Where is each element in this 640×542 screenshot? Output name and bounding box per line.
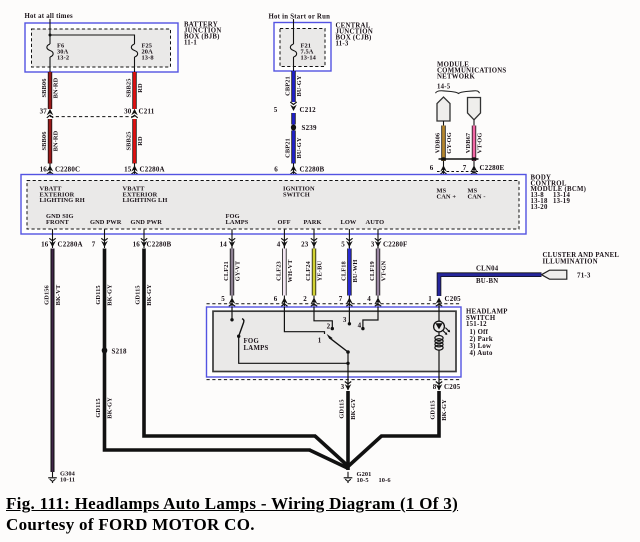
svg-text:BK-GY: BK-GY (350, 398, 357, 420)
svg-text:VT-OG: VT-OG (477, 133, 484, 154)
svg-text:C2280B: C2280B (147, 240, 172, 248)
node MS CAN - (468, 187, 486, 200)
fuse F21 7.5A (290, 44, 296, 57)
pin 7 gnd pwr (104, 229, 106, 248)
node MS CAN + (437, 187, 457, 200)
wire CLF19 VT-GN (369, 245, 388, 307)
svg-text:GND PWR: GND PWR (90, 219, 122, 226)
svg-text:30: 30 (124, 108, 132, 116)
svg-text:YE-BU: YE-BU (317, 261, 324, 282)
node contact 2 (331, 327, 334, 330)
svg-text:BK-GY: BK-GY (107, 284, 114, 306)
wire hot feed into BJB (49, 19, 51, 44)
svg-text:BN-RD: BN-RD (53, 77, 60, 98)
switch pin 3 out (345, 382, 352, 391)
svg-text:SWITCH: SWITCH (283, 191, 310, 198)
wire SBB06 BN-RD lower segment (41, 119, 60, 164)
wire fog lamp output (239, 336, 348, 363)
svg-text:13-20: 13-20 (531, 204, 548, 211)
svg-text:13-8: 13-8 (142, 55, 154, 62)
svg-text:2: 2 (303, 295, 307, 303)
svg-text:1: 1 (428, 295, 432, 303)
ground G201 (344, 472, 353, 483)
wire GD115 BK-GY from switch pin 8 (348, 391, 448, 467)
svg-text:WH-VT: WH-VT (287, 259, 294, 283)
node VBATT EXTERIOR LIGHTING RH (40, 185, 85, 204)
wire GD156 BK-VT (44, 249, 63, 473)
wire GD115 BK-GY from switch pin 3 (339, 391, 358, 470)
svg-text:GD115: GD115 (135, 285, 142, 304)
svg-text:3) Low: 3) Low (470, 343, 492, 350)
svg-text:4: 4 (277, 240, 281, 248)
svg-text:SBB25: SBB25 (126, 79, 133, 98)
wire hot feed into CJB (293, 19, 295, 44)
svg-text:6: 6 (430, 164, 434, 172)
wire VDB67 VT-OG (465, 120, 484, 181)
svg-text:11-3: 11-3 (336, 41, 349, 48)
svg-text:LIGHTING LH: LIGHTING LH (123, 197, 168, 204)
brace over network connectors (436, 91, 480, 94)
wire GD115 BK-GY from pin 16 C2280B (135, 249, 349, 467)
splice S218 (102, 347, 108, 353)
wire LED to resistor (438, 332, 440, 336)
svg-text:3: 3 (343, 316, 347, 324)
svg-text:C205: C205 (444, 383, 461, 391)
wire CBP21 BU-GY lower segment (285, 131, 304, 164)
svg-text:SBB25: SBB25 (126, 132, 133, 151)
svg-text:5: 5 (221, 295, 225, 303)
svg-text:1: 1 (318, 336, 322, 344)
svg-text:16: 16 (40, 166, 48, 174)
svg-text:6: 6 (274, 166, 278, 174)
connector VDB67 terminal (468, 98, 481, 120)
wire CLF21 GY-VT (223, 245, 242, 307)
svg-text:RD: RD (137, 83, 144, 93)
lamp LED indicator (434, 321, 451, 335)
wire from pin 4 to contact 4 (363, 307, 378, 327)
connector C211 dashed line (50, 116, 135, 118)
svg-text:C2280B: C2280B (300, 166, 325, 174)
wire CLF18 BU-WH (340, 245, 359, 307)
svg-text:CLN04: CLN04 (476, 266, 499, 273)
connector C205 dashed line top (207, 303, 462, 305)
switch fog lamps lever (239, 319, 244, 337)
wire resistor down (438, 350, 440, 390)
pin 5 low (348, 229, 350, 248)
svg-text:LOW: LOW (341, 219, 357, 226)
wire fog feed inside switch (231, 307, 233, 320)
fuse F25 20A (131, 44, 137, 57)
svg-text:GD115: GD115 (430, 400, 437, 419)
headlamp switch box (207, 307, 462, 377)
svg-text:VT-GN: VT-GN (381, 260, 388, 281)
svg-text:14: 14 (220, 240, 228, 248)
svg-text:OFF: OFF (278, 219, 291, 226)
node VBATT EXTERIOR LIGHTING LH (123, 185, 168, 204)
svg-text:BK-VT: BK-VT (55, 284, 62, 305)
svg-text:NETWORK: NETWORK (437, 74, 475, 81)
svg-text:4: 4 (358, 321, 362, 329)
wire illumination feed inside switch (438, 301, 440, 322)
svg-text:SBB06: SBB06 (41, 78, 48, 98)
wire from pin 6 to contact 1 (284, 307, 324, 334)
svg-text:16: 16 (41, 240, 49, 248)
wire from pin 2 to contact 2 (314, 307, 332, 327)
fuse F6 30A (47, 44, 53, 57)
wire bus inside BJB (50, 35, 135, 44)
switch pin 7 (346, 297, 353, 306)
pin 16 C2280A gnd sig (52, 229, 54, 248)
svg-text:GY-OG: GY-OG (446, 132, 453, 154)
svg-text:PARK: PARK (304, 219, 322, 226)
switch pin 8 C205 out (436, 382, 443, 391)
svg-text:4: 4 (367, 295, 371, 303)
svg-text:23: 23 (301, 240, 309, 248)
svg-text:LIGHTING RH: LIGHTING RH (40, 197, 85, 204)
wire switch common down (347, 352, 349, 390)
svg-text:BK-GY: BK-GY (107, 397, 114, 419)
svg-text:LAMPS: LAMPS (226, 219, 249, 226)
svg-text:13-2: 13-2 (57, 55, 69, 62)
svg-text:16: 16 (133, 240, 141, 248)
svg-text:4) Auto: 4) Auto (470, 350, 493, 357)
wire CLF24 YE-BU (305, 245, 324, 307)
wire SBB25 RD upper segment (126, 72, 145, 109)
svg-text:GND PWR: GND PWR (131, 219, 163, 226)
svg-text:7: 7 (339, 295, 343, 303)
svg-text:GD156: GD156 (44, 284, 51, 304)
svg-text:10-5: 10-5 (357, 477, 369, 484)
svg-text:7: 7 (92, 240, 96, 248)
svg-text:BU-WH: BU-WH (352, 260, 359, 283)
pin 4 off (283, 229, 285, 248)
svg-text:AUTO: AUTO (366, 219, 385, 226)
svg-text:S218: S218 (112, 347, 127, 355)
svg-text:1) Off: 1) Off (470, 329, 489, 336)
svg-text:VDB06: VDB06 (435, 132, 442, 153)
svg-text:BK-GY: BK-GY (441, 399, 448, 421)
svg-text:CAN +: CAN + (437, 193, 457, 200)
svg-text:C212: C212 (300, 106, 317, 114)
node junction dot (49, 34, 52, 37)
splice S239 (291, 124, 296, 130)
svg-text:VDB67: VDB67 (465, 132, 472, 153)
svg-text:11-1: 11-1 (184, 40, 197, 47)
label BJB name (184, 22, 222, 47)
svg-text:15: 15 (124, 166, 132, 174)
label BCM name (531, 174, 587, 211)
pin 3 C2280F auto (377, 229, 379, 248)
svg-text:37: 37 (40, 108, 48, 116)
central junction box CJB (274, 23, 331, 72)
svg-text:SBB06: SBB06 (41, 131, 48, 151)
svg-text:S239: S239 (302, 124, 317, 132)
label module communications network (437, 62, 506, 91)
pin 23 park (313, 229, 315, 248)
svg-text:10-6: 10-6 (379, 477, 392, 484)
svg-text:C205: C205 (445, 295, 462, 303)
svg-text:3: 3 (341, 383, 345, 391)
switch pin 4 (375, 297, 382, 306)
switch pin 6 (281, 297, 288, 306)
svg-text:LAMPS: LAMPS (244, 345, 269, 352)
switch pin 5 (229, 297, 236, 306)
svg-text:RD: RD (137, 136, 144, 146)
ground G304 (48, 472, 57, 483)
wire SBB06 BN-RD upper segment (41, 72, 60, 109)
svg-text:BK-GY: BK-GY (146, 284, 153, 306)
svg-text:FRONT: FRONT (46, 219, 70, 226)
resistor coil (435, 336, 443, 351)
wire GD115 BK-GY from pin 7 (95, 249, 349, 469)
svg-text:Hot at all times: Hot at all times (25, 13, 73, 20)
node contact 4 (361, 327, 364, 330)
svg-text:C2280F: C2280F (383, 240, 408, 248)
wire twisted pair bar (439, 157, 479, 160)
svg-text:6: 6 (274, 295, 278, 303)
svg-text:5: 5 (341, 240, 345, 248)
svg-text:2) Park: 2) Park (470, 336, 493, 343)
svg-text:C2280A: C2280A (58, 240, 83, 248)
svg-text:ILLUMINATION: ILLUMINATION (543, 258, 598, 265)
pin 16 C2280B gnd pwr (143, 229, 145, 248)
svg-text:5: 5 (274, 106, 278, 114)
svg-text:FOG: FOG (244, 338, 260, 345)
wire CLN04 BU-BN (439, 266, 542, 296)
svg-text:3: 3 (371, 240, 375, 248)
svg-text:CLF24: CLF24 (305, 260, 312, 280)
connector 71-3 flag (542, 270, 567, 279)
svg-text:BN-RD: BN-RD (53, 130, 60, 151)
connector C2280E dashed line (437, 171, 479, 173)
svg-text:GD115: GD115 (95, 285, 102, 304)
node contact 3 (348, 322, 351, 325)
svg-text:CBP21: CBP21 (285, 76, 292, 96)
svg-text:14-5: 14-5 (437, 83, 451, 90)
switch main lever (330, 338, 348, 352)
battery junction box BJB (25, 23, 178, 72)
switch pin 1 C205 (436, 297, 443, 306)
wire CBP21 segment to splice (291, 113, 295, 125)
svg-text:CAN -: CAN - (468, 193, 486, 200)
svg-text:2: 2 (327, 322, 331, 330)
wire from pin 7 to contact 3 (348, 307, 350, 323)
svg-text:C2280E: C2280E (480, 164, 505, 172)
wire CBP21 BU-GY upper segment (285, 71, 304, 102)
svg-text:7: 7 (463, 164, 467, 172)
svg-text:Hot in Start or Run: Hot in Start or Run (269, 14, 331, 21)
connector VDB06 terminal (437, 97, 450, 121)
svg-text:CLF21: CLF21 (223, 261, 230, 281)
svg-text:BU-BN: BU-BN (476, 278, 498, 285)
svg-text:151-12: 151-12 (466, 321, 487, 328)
wire CLF23 WH-VT (275, 245, 294, 307)
wire SBB25 RD lower segment (126, 119, 145, 164)
svg-text:C2280C: C2280C (55, 166, 80, 174)
svg-text:8: 8 (433, 383, 437, 391)
svg-text:CBP21: CBP21 (285, 138, 292, 158)
svg-text:CLF19: CLF19 (369, 261, 376, 281)
svg-text:GD115: GD115 (95, 398, 102, 417)
svg-text:BU-GY: BU-GY (296, 137, 303, 158)
svg-text:CLF23: CLF23 (275, 261, 282, 281)
label headlamp switch name (466, 308, 508, 357)
wire VDB06 GY-OG (435, 121, 454, 181)
svg-text:CLF18: CLF18 (340, 261, 347, 281)
svg-text:C2280A: C2280A (140, 166, 165, 174)
pin 14 fog lamps (231, 229, 233, 248)
svg-text:BU-GY: BU-GY (296, 75, 303, 96)
body control module BCM box (21, 175, 526, 235)
svg-text:10-11: 10-11 (60, 476, 75, 483)
connector C205 dashed line bottom (207, 379, 462, 381)
svg-text:GY-VT: GY-VT (235, 260, 242, 281)
svg-text:13-14: 13-14 (301, 55, 317, 62)
node IGNITION SWITCH (283, 185, 315, 198)
svg-text:GD115: GD115 (339, 399, 346, 418)
svg-text:71-3: 71-3 (577, 271, 591, 279)
label CJB name (336, 23, 374, 48)
switch pin 2 (311, 297, 318, 306)
svg-text:C211: C211 (139, 108, 155, 116)
